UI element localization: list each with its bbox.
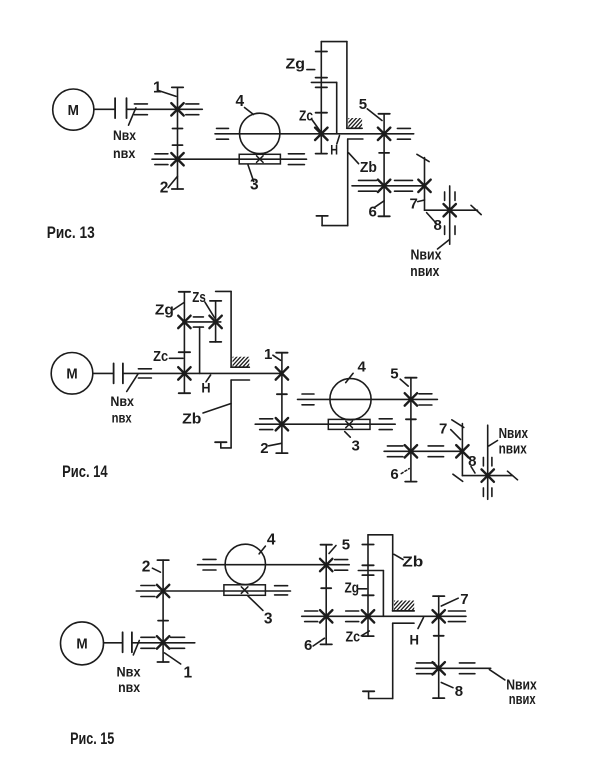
- cap sun bottom fig13: [316, 153, 327, 155]
- label 6 fig13: [369, 204, 377, 221]
- label Nвх fig14: [110, 393, 134, 409]
- leader 4 fig13: [245, 108, 254, 115]
- label 3 fig14: [352, 438, 360, 455]
- svg-text:nвих: nвих: [410, 263, 440, 280]
- bearing left of wheel4 fig15: [203, 559, 216, 570]
- shaft end tick top fig14: [452, 420, 464, 428]
- worm 3 fig13: [239, 154, 280, 164]
- svg-text:nвх: nвх: [112, 409, 132, 425]
- svg-text:Nвих: Nвих: [499, 425, 529, 442]
- ring gear lower edge bar fig14: [231, 379, 249, 381]
- leader H fig14: [206, 375, 211, 382]
- bearing above gear8 fig14: [483, 457, 492, 466]
- svg-text:Zc: Zc: [346, 628, 361, 645]
- fixed support hatch fig15: [384, 600, 422, 612]
- label 7 fig13: [410, 195, 418, 212]
- svg-text:8: 8: [434, 217, 442, 234]
- label 1 fig14: [264, 346, 272, 363]
- svg-text:Zg: Zg: [155, 302, 174, 319]
- shaft gears 5-6 fig13: [383, 114, 385, 217]
- shaft gears 5-6 fig15: [325, 545, 327, 645]
- leader Zs fig14: [205, 302, 215, 318]
- worm wheel 4 fig15: [225, 544, 265, 584]
- bearing right of gear6 fig14: [428, 446, 444, 457]
- label Zs fig14: [192, 289, 206, 306]
- shaft gears 1-2 fig13: [177, 87, 179, 189]
- svg-text:Nвх: Nвх: [117, 664, 141, 680]
- carrier H vertical fig14: [199, 327, 201, 373]
- svg-text:6: 6: [304, 637, 312, 654]
- cap planet bottom rim fig13: [316, 86, 327, 88]
- label H fig13: [330, 142, 338, 158]
- cap Zs top fig14: [210, 300, 221, 302]
- bearing right of gear5 fig15: [335, 560, 348, 571]
- leader Zc fig13: [311, 119, 320, 131]
- carrier H vertical fig15: [382, 571, 384, 617]
- ring gear bracket top fig14: [216, 291, 232, 367]
- gear 2 fig14: [276, 418, 288, 430]
- input shaft after coupling fig13: [127, 108, 203, 110]
- gear 5 fig14: [405, 393, 417, 405]
- label 3 fig15: [264, 611, 273, 628]
- svg-text:Nвх: Nвх: [110, 393, 134, 409]
- leader 7 fig15: [441, 598, 458, 606]
- leader 3 fig14: [345, 432, 351, 438]
- label Zc fig14: [153, 348, 168, 365]
- label Nвих fig15: [506, 677, 537, 694]
- svg-text:3: 3: [352, 438, 360, 455]
- cap ring mesh fig13: [316, 51, 327, 53]
- carrier arm fig13: [311, 81, 336, 83]
- sun gear Zc X fig13: [315, 128, 327, 140]
- svg-text:4: 4: [358, 359, 367, 376]
- cap mid shaft5-6 fig13: [379, 152, 389, 154]
- gear 7 fig13: [418, 180, 430, 192]
- gear 1 fig13: [171, 103, 183, 115]
- svg-text:М: М: [68, 103, 79, 119]
- cap top shaft7-8 fig15: [433, 595, 444, 597]
- leader Zg fig15: [358, 588, 367, 590]
- label 7 fig14: [439, 421, 447, 438]
- leader Nвих fig14: [489, 441, 498, 446]
- cap top shaft5-6 fig13: [378, 113, 389, 115]
- svg-text:nвх: nвх: [113, 145, 135, 161]
- shaft end tick top fig13: [417, 154, 429, 161]
- leader Nвх fig14: [127, 374, 138, 392]
- label Zb fig14: [182, 410, 201, 427]
- gear 6 fig14: [405, 445, 417, 457]
- label 4 fig14: [358, 359, 367, 376]
- cap sun bottom fig14: [179, 392, 190, 394]
- sun gear X fig14: [178, 367, 190, 379]
- svg-text:1: 1: [153, 79, 162, 96]
- svg-text:2: 2: [260, 440, 268, 457]
- ring gear bracket bottom fig14: [221, 380, 231, 448]
- coupling fig15: [123, 632, 132, 652]
- lower shaft fig14: [255, 423, 395, 425]
- gear 1 fig14: [276, 367, 288, 379]
- gear 6 fig13: [378, 180, 390, 192]
- gear6 shaft fig13: [352, 185, 425, 187]
- corner bevel tick fig14: [453, 474, 463, 481]
- output horizontal fig13: [425, 209, 478, 211]
- leader Zg fig13: [307, 69, 315, 71]
- planet Zs X fig14: [209, 316, 221, 328]
- label 8 fig13: [434, 217, 442, 234]
- input shaft fig15: [104, 642, 123, 644]
- shaft gears 1-2 fig15: [162, 560, 164, 662]
- gear2 shaft fig15: [136, 590, 290, 592]
- svg-text:5: 5: [342, 537, 350, 554]
- svg-text:nвих: nвих: [499, 440, 528, 457]
- leader 4 fig14: [346, 373, 353, 382]
- gear 8 fig13: [444, 204, 456, 216]
- label Nвих fig13: [411, 246, 443, 263]
- cap planet top fig14: [179, 291, 190, 293]
- input shaft fig13: [94, 108, 115, 110]
- cap Zs bottom fig14: [210, 341, 221, 343]
- gear 6 fig15: [320, 610, 332, 622]
- svg-text:2: 2: [160, 179, 169, 196]
- label nвх fig15: [118, 679, 140, 695]
- leader Zc fig15: [361, 631, 369, 636]
- gear 1 fig15: [157, 636, 169, 648]
- label 2 fig13: [160, 179, 169, 196]
- leader Zg fig14: [174, 303, 185, 310]
- bearing left of gear6 fig15: [305, 611, 318, 622]
- bearing left of wheel4 fig13: [217, 128, 229, 139]
- label H fig14: [201, 380, 210, 396]
- planet gear line fig15: [367, 535, 369, 636]
- svg-text:3: 3: [250, 176, 259, 193]
- ring gear lower edge bar fig15: [393, 622, 414, 624]
- svg-text:6: 6: [390, 466, 398, 483]
- shaft gears 5-6 fig14: [410, 378, 412, 482]
- motor M fig13: [53, 89, 94, 130]
- bearing right of gear6 fig15: [346, 611, 359, 622]
- leader Nвих fig13: [438, 240, 450, 250]
- cap bottom shaft5-6 fig14: [405, 481, 416, 483]
- bearing left of wheel4 fig14: [302, 394, 314, 405]
- bearing left of gear2 fig15: [141, 586, 155, 597]
- cap top shaft1-2 fig15: [157, 559, 168, 561]
- caption fig15: [70, 729, 114, 748]
- label nвих fig14: [499, 440, 528, 457]
- leader 8 fig15: [441, 683, 453, 688]
- leader 5 fig15: [329, 546, 336, 554]
- bearing below gear8 fig14: [483, 488, 492, 497]
- leader 5 fig13: [367, 109, 382, 121]
- bearing right of gear6 fig13: [395, 180, 413, 191]
- output horizontal fig14: [462, 475, 512, 477]
- shaft gears 7-8 fig15: [438, 596, 440, 698]
- label 7 fig15: [460, 591, 468, 608]
- shaft gears 1-2 fig14: [281, 353, 283, 453]
- carrier H vertical fig13: [336, 82, 338, 133]
- cap mid shaft1-2 fig15: [158, 620, 168, 622]
- cap planet top rim fig13: [316, 77, 327, 79]
- label Zb fig13: [360, 159, 377, 176]
- cap bottom shaft7-8 fig15: [433, 697, 444, 699]
- leader 2 fig15: [152, 568, 160, 572]
- label Zg fig15: [345, 580, 360, 597]
- leader 6 fig15: [313, 638, 324, 646]
- label 3 fig13: [250, 176, 259, 193]
- label Zc fig15: [346, 628, 361, 645]
- caption fig13: [47, 223, 95, 242]
- svg-text:8: 8: [455, 683, 463, 700]
- fixed support hatch fig13: [339, 117, 373, 129]
- label 5 fig14: [390, 366, 398, 383]
- motor M fig15: [61, 622, 104, 665]
- label nвх fig13: [113, 145, 135, 161]
- leader 6 fig14: [401, 469, 409, 474]
- motor M fig14: [51, 353, 93, 395]
- leader Nвих fig15: [489, 670, 505, 680]
- ring gear bracket top fig15: [368, 535, 393, 611]
- bearing left of gear2 fig14: [260, 419, 273, 430]
- bearing above gear8 fig13: [445, 192, 455, 201]
- cap sun bottom fig15: [362, 635, 373, 637]
- svg-text:2: 2: [142, 559, 151, 576]
- svg-text:Рис. 13: Рис. 13: [47, 223, 95, 242]
- planet gear Zg line fig14: [183, 292, 185, 393]
- leader H fig13: [337, 136, 340, 145]
- cap mid shaft5-6 fig15: [321, 587, 331, 589]
- cap gear2 top fig13: [173, 144, 183, 146]
- svg-text:nвих: nвих: [509, 691, 536, 708]
- cap bottom shaft1-2 fig14: [276, 452, 287, 454]
- svg-text:5: 5: [359, 96, 367, 113]
- bearing after coupling fig15: [141, 637, 155, 648]
- bearing left of gear8 fig15: [417, 663, 435, 674]
- bevel shaft vertical fig13: [424, 158, 426, 211]
- svg-text:4: 4: [236, 93, 245, 110]
- leader 1 fig14: [273, 355, 281, 360]
- gear 7 fig14: [456, 445, 468, 457]
- label Zb fig15: [402, 554, 423, 571]
- upper shaft fig14: [298, 398, 438, 400]
- gear 5 fig15: [320, 559, 332, 571]
- caption fig14: [62, 462, 108, 481]
- cap ring mesh fig15: [362, 544, 373, 546]
- cap bracket bottom stub fig14: [215, 441, 226, 443]
- leader Nвх fig15: [133, 641, 139, 655]
- ring gear bracket bottom fig13: [322, 139, 348, 226]
- leader Zb fig14: [203, 404, 231, 414]
- svg-text:Zs: Zs: [192, 289, 206, 306]
- gear 2 fig15: [157, 585, 169, 597]
- input shaft fig14: [93, 372, 114, 374]
- label 6 fig14: [390, 466, 398, 483]
- cap top shaft5-6 fig15: [321, 544, 332, 546]
- planet gear Zs line fig14: [215, 301, 217, 342]
- ring gear bracket bottom fig15: [369, 623, 393, 698]
- bearing right of gear1 fig15: [171, 637, 185, 648]
- svg-text:nвх: nвх: [118, 679, 140, 695]
- leader Zc fig14: [169, 357, 183, 359]
- leader Nвх fig13: [129, 108, 136, 125]
- label Zc fig13: [299, 108, 313, 125]
- worm wheel 4 fig13: [240, 113, 280, 153]
- cap top shaft1-2 fig13: [172, 86, 183, 88]
- svg-text:H: H: [410, 631, 420, 647]
- svg-text:3: 3: [264, 611, 273, 628]
- label Nвх fig13: [113, 127, 136, 143]
- upper shaft fig15: [198, 564, 350, 566]
- cap sun top fig15: [362, 594, 373, 596]
- upper shaft fig13: [215, 133, 414, 135]
- label 5 fig13: [359, 96, 367, 113]
- bearing left of gear6 fig14: [387, 446, 403, 457]
- bearing right of worm fig15: [275, 586, 288, 595]
- input shaft after coupling fig14: [123, 372, 282, 374]
- svg-text:Zc: Zc: [299, 108, 313, 125]
- label 8 fig15: [455, 683, 463, 700]
- label 6 fig15: [304, 637, 312, 654]
- leader 6 fig13: [375, 201, 385, 208]
- cap mid shaft7-8 fig15: [434, 635, 444, 637]
- label Zg fig14: [155, 302, 174, 319]
- ring gear bracket top fig13: [321, 42, 347, 129]
- planet axis line fig14: [183, 321, 221, 323]
- svg-text:Zg: Zg: [345, 580, 360, 597]
- fixed support hatch fig14: [223, 356, 261, 368]
- label nвих fig13: [410, 263, 440, 280]
- coupling fig14: [114, 363, 123, 383]
- leader 3 fig15: [248, 596, 263, 611]
- coupling fig13: [115, 98, 126, 118]
- bearing left of gear2 fig13: [155, 154, 168, 165]
- lower shaft fig13: [152, 158, 307, 160]
- cap gear1 bottom fig13: [173, 128, 183, 130]
- svg-text:7: 7: [410, 195, 418, 212]
- planet gear line fig13: [320, 42, 322, 154]
- label H fig15: [410, 631, 420, 647]
- leader 5 fig14: [400, 379, 408, 386]
- svg-text:1: 1: [264, 346, 272, 363]
- output gear shaft fig13: [449, 186, 451, 244]
- gear6 shaft fig15: [302, 615, 466, 617]
- bearing right of gear1 fig13: [186, 104, 199, 115]
- carrier arm fig15: [358, 570, 383, 572]
- cap planet-sun mesh fig14: [179, 351, 190, 353]
- bearing right of gear8 fig15: [459, 663, 475, 674]
- bearing right of worm fig14: [379, 419, 392, 430]
- svg-text:5: 5: [390, 366, 398, 383]
- gear 5 fig13: [378, 128, 390, 140]
- gear 8 fig15: [433, 662, 445, 674]
- bearing right of worm fig13: [288, 154, 304, 165]
- leader 1 fig13: [158, 90, 176, 96]
- svg-text:1: 1: [184, 665, 193, 682]
- gear6 shaft fig14: [384, 450, 462, 452]
- cap bracket bottom stub fig13: [316, 215, 327, 217]
- worm wheel 4 fig14: [330, 379, 371, 420]
- bearing right of gear5 fig13: [397, 128, 410, 139]
- label nвх fig14: [112, 409, 132, 425]
- planet axis bearing fig14: [193, 317, 203, 327]
- leader 4 f15: [259, 546, 265, 554]
- cap top shaft5-6 fig14: [405, 377, 416, 379]
- bearing after coupling fig13: [134, 104, 147, 115]
- leader 1 fig15: [165, 653, 181, 664]
- gear 7 fig15: [433, 610, 445, 622]
- svg-text:Zg: Zg: [286, 56, 306, 73]
- shaft end tick right fig14: [508, 471, 518, 480]
- svg-text:Zb: Zb: [402, 554, 423, 571]
- output gear shaft fig14: [487, 425, 489, 499]
- gear 2 fig13: [171, 153, 183, 165]
- cap top shaft1-2 fig14: [276, 352, 287, 354]
- bearing right of gear7 fig15: [448, 611, 465, 622]
- bearing below gear8 fig13: [445, 226, 455, 235]
- planet axis X fig14: [178, 316, 190, 328]
- leader Zb fig13: [349, 153, 359, 164]
- leader H fig15: [418, 618, 424, 629]
- output shaft fig15: [415, 667, 490, 669]
- label 8 fig14: [468, 453, 476, 470]
- label 5 fig15: [342, 537, 350, 554]
- label 1 fig15: [184, 665, 193, 682]
- leader 7 fig14: [451, 430, 461, 440]
- label nвих fig15: [509, 691, 536, 708]
- bearing right of gear5 fig14: [419, 394, 432, 405]
- svg-text:М: М: [76, 637, 87, 653]
- cap mid shaft5-6 fig14: [406, 418, 416, 420]
- svg-text:Zb: Zb: [360, 159, 377, 176]
- cap planet top rim fig15: [362, 564, 373, 566]
- cap bottom shaft1-2 fig13: [172, 188, 183, 190]
- cap bottom shaft5-6 fig15: [321, 643, 332, 645]
- svg-text:Рис. 14: Рис. 14: [62, 462, 108, 481]
- shaft end tick right fig13: [471, 205, 481, 214]
- leader 2 fig14: [269, 443, 282, 446]
- svg-text:7: 7: [439, 421, 447, 438]
- ring gear lower edge bar fig13: [348, 138, 363, 140]
- svg-text:Nвх: Nвх: [113, 127, 136, 143]
- cap mid shaft1-2 fig14: [277, 393, 287, 395]
- label 4 fig15: [267, 532, 276, 549]
- cap planet bottom rim fig15: [362, 574, 373, 576]
- svg-text:Zc: Zc: [153, 348, 168, 365]
- leader Zb fig15: [394, 554, 403, 559]
- leader 7 fig13: [418, 200, 425, 202]
- bevel shaft vertical fig14: [461, 424, 463, 476]
- svg-text:4: 4: [267, 532, 276, 549]
- svg-text:Zb: Zb: [182, 410, 201, 427]
- cap bottom shaft5-6 fig13: [378, 215, 389, 217]
- label 4 fig13: [236, 93, 245, 110]
- leader 3 fig13: [248, 165, 254, 182]
- leader 8 fig14: [471, 467, 475, 474]
- bearing after coupling fig14: [138, 369, 151, 378]
- sun gear Zc X fig15: [362, 610, 374, 622]
- label 2 fig14: [260, 440, 268, 457]
- cap bracket bottom stub fig15: [363, 690, 374, 692]
- label Zg fig13: [286, 56, 306, 73]
- worm 3 fig14: [328, 419, 370, 429]
- label 2 fig15: [142, 559, 151, 576]
- svg-text:7: 7: [460, 591, 468, 608]
- bearing left of gear6 fig13: [359, 180, 377, 191]
- svg-text:М: М: [66, 367, 77, 383]
- label 1 fig13: [153, 79, 162, 96]
- input shaft after coupling fig15: [132, 642, 195, 644]
- leader 2 fig13: [168, 176, 177, 187]
- label Nвх fig15: [117, 664, 141, 680]
- worm 3 fig15: [224, 585, 266, 596]
